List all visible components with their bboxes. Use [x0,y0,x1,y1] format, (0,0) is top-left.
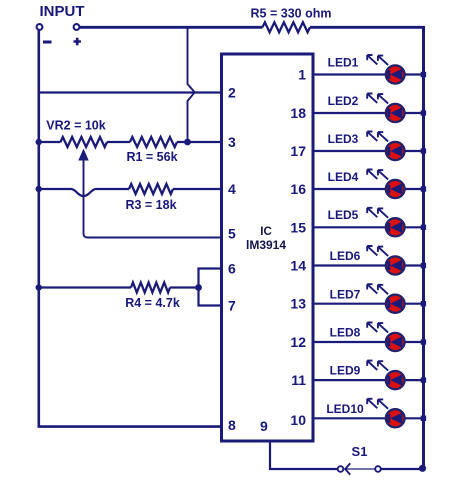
switch S1 [338,463,381,475]
label minus sign [43,41,52,44]
svg-text:16: 16 [290,181,306,197]
svg-text:9: 9 [260,418,268,434]
wire IC pin to LED4 [313,188,421,190]
wire switch to right rail [381,468,421,470]
svg-text:12: 12 [290,334,306,350]
junction dot LED6 anode to rail [421,263,426,268]
svg-text:LED7: LED7 [330,287,361,301]
svg-text:3: 3 [228,134,236,150]
LED LED2 [367,94,404,123]
junction dot LED2 anode to rail [421,110,426,115]
LED LED3 [367,132,404,161]
svg-text:14: 14 [290,258,306,274]
resistor R3 [129,184,173,194]
LED LED9 [367,361,404,390]
wire left rail to R3 with hop under wiper [38,189,129,196]
LED LED7 [367,284,404,313]
junction dot switch to rail [419,465,426,472]
wire IC pin to LED10 [313,417,421,419]
svg-text:LED8: LED8 [330,326,361,340]
svg-text:LED4: LED4 [328,170,359,184]
VR2 wiper arrow [78,149,88,161]
label plus sign [74,38,81,45]
junction dot LED9 anode to rail [421,377,426,382]
junction dot left rail pin3 wire [36,139,42,145]
LED LED8 [367,323,404,352]
LED LED1 [367,55,404,84]
potentiometer VR2 [61,137,108,147]
resistor R5 [263,22,311,32]
wire R3 to pin 4 [173,188,222,190]
junction dot node pin3 [184,139,191,146]
junction dot LED4 anode to rail [421,186,426,191]
op-amp IC U1 LM3914 body [222,54,314,441]
wire right anode rail [422,26,425,469]
wire R4 to bracket node [170,286,199,288]
svg-text:8: 8 [228,417,236,433]
svg-text:R5 = 330 ohm: R5 = 330 ohm [251,7,332,21]
svg-text:VR2 = 10k: VR2 = 10k [46,119,105,133]
junction dot LED1 anode to rail [421,72,426,77]
wire IC pin to LED3 [313,150,421,152]
junction dot LED7 anode to rail [421,301,426,306]
svg-text:LED10: LED10 [326,402,364,416]
LED LED6 [367,246,404,275]
terminal minus [37,24,43,30]
svg-text:lM3914: lM3914 [246,238,286,252]
wire IC pin to LED5 [313,226,421,228]
wire left rail from minus terminal down and to pin 8 [39,31,222,427]
svg-text:18: 18 [290,105,306,121]
wire vertical drop from top rail to pin3 node with hop over pin2 wire [188,28,195,142]
wire R5 to right rail [310,26,425,29]
junction dot LED10 anode to rail [421,416,426,421]
junction dot left rail R4 wire [36,284,42,290]
resistor R4 [131,283,170,293]
junction dot left rail pin4 wire [36,186,42,192]
wire bracket to pins 6 and 7 [199,269,222,306]
wire IC pin to LED2 [313,112,421,114]
svg-text:S1: S1 [352,444,368,459]
wire left rail to VR2 [39,141,61,143]
wire VR2 to R1 [107,141,130,143]
svg-text:2: 2 [228,85,236,101]
LED LED5 [367,208,404,237]
wire R1 to pin 3 [177,141,222,143]
wire pin 9 down to switch [270,441,338,469]
wire left rail to R4 [38,286,131,288]
junction dot LED8 anode to rail [421,339,426,344]
svg-text:IC: IC [260,226,272,238]
svg-text:10: 10 [290,412,306,428]
svg-text:LED5: LED5 [328,208,359,222]
svg-text:4: 4 [228,181,236,197]
svg-text:17: 17 [290,143,306,159]
wire IC pin to LED1 [313,73,421,75]
junction dot bracket node [195,284,202,291]
junction dot LED5 anode to rail [421,225,426,230]
svg-text:7: 7 [228,298,236,314]
svg-text:13: 13 [290,296,306,312]
wire IC pin to LED7 [313,303,421,305]
terminal plus [74,24,80,30]
wire IC pin to LED6 [313,264,421,266]
svg-text:6: 6 [228,261,236,277]
LED LED10 [367,399,404,428]
svg-text:15: 15 [290,219,306,235]
svg-text:11: 11 [291,372,306,388]
svg-text:5: 5 [228,226,236,242]
svg-text:1: 1 [298,67,306,83]
svg-text:INPUT: INPUT [40,3,85,20]
svg-text:LED6: LED6 [330,249,361,263]
svg-text:LED3: LED3 [328,132,359,146]
wire pin 2 from left rail [38,91,222,93]
svg-text:LED9: LED9 [330,364,361,378]
wire IC pin to LED9 [313,379,421,381]
wire VR2 wiper down to pin 5 [84,158,222,238]
svg-text:R4 = 4.7k: R4 = 4.7k [125,296,180,310]
LED LED4 [367,170,404,199]
svg-text:LED1: LED1 [328,55,359,69]
junction dot LED3 anode to rail [421,148,426,153]
wire IC pin to LED8 [313,341,421,343]
resistor R1 [130,137,177,147]
svg-text:LED2: LED2 [328,94,359,108]
svg-text:R1 = 56k: R1 = 56k [126,150,177,164]
wire top rail from plus terminal to R5 [80,26,263,29]
svg-text:R3 = 18k: R3 = 18k [125,198,176,212]
